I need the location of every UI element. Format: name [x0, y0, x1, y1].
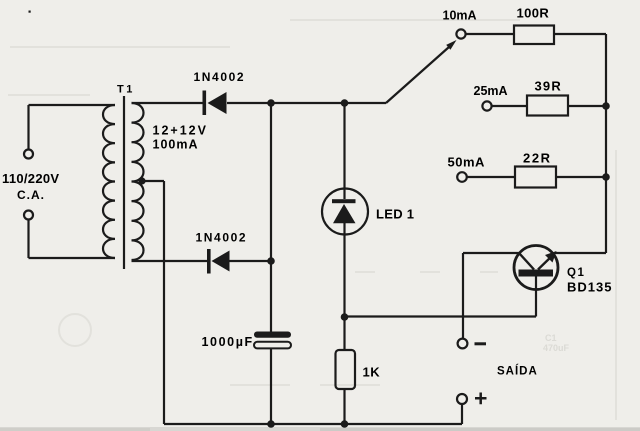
svg-text:470uF: 470uF — [543, 343, 570, 353]
wire switch arm — [386, 47, 449, 103]
wire diode 2 to node — [229, 260, 271, 262]
svg-text:25mA: 25mA — [474, 84, 508, 98]
resistor 1K — [336, 350, 356, 389]
wire 10mA terminal to 100R — [466, 33, 514, 35]
svg-text:100mA: 100mA — [153, 138, 199, 152]
wire emitter to right rail — [555, 252, 606, 254]
wire top rail left of diode — [132, 102, 204, 104]
LED1 cathode bar — [332, 199, 356, 203]
switch arrowhead — [446, 40, 456, 50]
wire LED internal — [343, 223, 345, 235]
wire 1K bottom — [343, 389, 345, 424]
terminal 50mA — [457, 172, 467, 182]
svg-text:110/220V: 110/220V — [2, 171, 59, 186]
wire center tap vertical — [163, 181, 165, 424]
svg-text:Q1: Q1 — [567, 267, 585, 279]
LED1 triangle — [333, 204, 356, 223]
resistor 39R — [527, 96, 568, 116]
node junction top rail / capacitor — [267, 99, 275, 107]
svg-text:1N4002: 1N4002 — [196, 231, 248, 245]
wire 25mA terminal to 39R — [492, 105, 527, 107]
node capacitor / bottom rail — [267, 420, 275, 428]
capacitor C1 bottom plate — [254, 342, 291, 349]
transistor Q1 circle — [514, 246, 558, 290]
svg-text:1K: 1K — [363, 365, 381, 380]
transistor Q1 collector diagonal — [519, 253, 534, 270]
svg-text:22R: 22R — [523, 151, 552, 166]
diode D1 1N4002 top: cathode bar — [203, 91, 207, 116]
wire collector vertical to minus terminal — [462, 253, 464, 339]
wire capacitor vertical bottom — [270, 349, 272, 425]
speck — [29, 11, 31, 13]
svg-text:C.A.: C.A. — [17, 188, 45, 202]
svg-text:50mA: 50mA — [448, 155, 486, 170]
wire top rail right of diode — [227, 102, 386, 104]
wire center tap horizontal — [142, 180, 164, 182]
svg-text:T1: T1 — [117, 84, 135, 96]
wire collector horizontal — [463, 252, 519, 254]
terminal 110/220V top — [24, 150, 33, 159]
wire bottom rail — [164, 423, 462, 425]
wire 50mA terminal to 22R — [467, 176, 515, 178]
svg-text:C1: C1 — [545, 333, 557, 343]
diode D1 triangle — [208, 92, 227, 114]
diode D2 1N4002 bottom: cathode bar — [207, 249, 211, 274]
terminal plus — [457, 394, 467, 404]
wire 39R to right rail — [568, 105, 606, 107]
wire 100R to right rail — [554, 33, 606, 35]
wire 1K top — [343, 317, 345, 350]
svg-text:100R: 100R — [517, 6, 550, 21]
wire 22R to right rail — [556, 176, 606, 178]
node diode2 / capacitor rail — [267, 257, 275, 265]
wire LED top — [343, 103, 345, 199]
transformer core — [123, 96, 125, 269]
svg-text:LED 1: LED 1 — [376, 207, 414, 222]
capacitor C1 1000uF top plate — [254, 332, 291, 338]
wire base horizontal — [345, 315, 537, 317]
svg-text:1N4002: 1N4002 — [194, 70, 246, 84]
transformer center tap node — [138, 177, 145, 184]
wire capacitor vertical top — [270, 103, 272, 332]
bottom scan band — [0, 427, 640, 431]
svg-text:39R: 39R — [535, 79, 562, 94]
node 1K / bottom rail — [341, 420, 349, 428]
terminal 25mA — [482, 101, 491, 110]
svg-text:SAÍDA: SAÍDA — [497, 365, 538, 378]
wire primary top — [29, 105, 116, 150]
transformer T1 secondary winding — [132, 103, 144, 260]
svg-text:1000µF: 1000µF — [202, 335, 254, 349]
svg-text:BD135: BD135 — [567, 280, 612, 295]
wire secondary bottom to diode — [132, 260, 208, 262]
terminal 10mA — [456, 29, 465, 38]
node 22R / right rail — [602, 173, 610, 181]
transistor Q1 emitter arrowhead — [545, 251, 557, 263]
terminal 110/220V bottom — [24, 211, 33, 220]
terminal minus — [458, 339, 468, 349]
diode D2 triangle — [212, 251, 230, 272]
transformer T1 primary winding — [103, 105, 115, 258]
wire base vertical — [535, 276, 537, 317]
resistor 22R — [515, 167, 556, 188]
node base/LED junction — [341, 313, 349, 321]
transistor Q1 base bar — [519, 270, 554, 277]
svg-text:10mA: 10mA — [443, 9, 477, 23]
node 39R / right rail — [602, 102, 610, 110]
svg-text:12+12V: 12+12V — [153, 124, 208, 138]
resistor 100R — [514, 26, 554, 45]
wire right rail — [605, 34, 607, 253]
node junction top rail / LED — [341, 99, 349, 107]
wire plus terminal lead — [461, 404, 463, 424]
wire primary bottom — [29, 220, 116, 259]
wire LED bottom — [343, 235, 345, 318]
label minus sign — [475, 342, 487, 345]
LED1 circle — [322, 189, 368, 235]
label plus sign — [475, 393, 487, 405]
transistor Q1 emitter diagonal — [538, 254, 554, 270]
